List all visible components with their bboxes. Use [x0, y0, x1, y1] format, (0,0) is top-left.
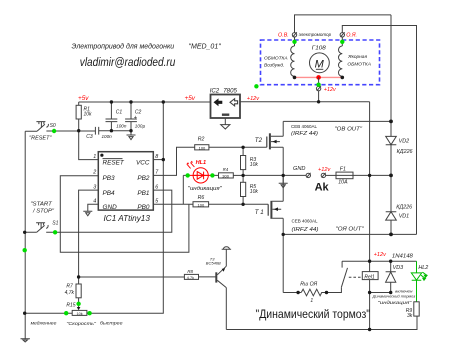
svg-text:R4: R4 — [223, 167, 229, 172]
svg-text:VCC: VCC — [136, 159, 150, 166]
svg-text:VD2: VD2 — [399, 139, 410, 145]
title text — [72, 43, 222, 51]
wire T1 source to GND row — [282, 175, 284, 201]
node 1N4148 label — [392, 254, 413, 260]
svg-text:HL2: HL2 — [418, 265, 428, 271]
ground (IC1 pin4) — [83, 211, 92, 216]
svg-text:О.В.: О.В. — [278, 32, 289, 38]
node +12v label (IC2 out) — [247, 96, 260, 102]
node "ОВ OUT" label — [335, 127, 364, 133]
svg-text:(IRFZ 44): (IRFZ 44) — [292, 227, 319, 233]
wire pin8 VCC lead — [153, 159, 163, 161]
node "ОЯ OUT" label — [336, 227, 365, 233]
power +12 stub symbol (above T3) — [222, 247, 231, 266]
wire T2 drain to OV rail — [282, 121, 284, 136]
node О.В. terminal — [278, 32, 297, 38]
LED HL2 (green) — [411, 261, 428, 302]
node "индикация" label — [188, 186, 223, 192]
svg-text:RESET: RESET — [103, 159, 125, 166]
inductor field winding — [264, 37, 295, 77]
svg-text:+: + — [134, 115, 138, 121]
IC op IC1 ATtiny13 — [92, 152, 159, 223]
svg-text:Ak: Ak — [315, 181, 330, 193]
svg-text:HL1: HL1 — [196, 160, 207, 166]
svg-text:(IRFZ 44): (IRFZ 44) — [291, 131, 318, 137]
svg-text:ОБМОТКА: ОБМОТКА — [347, 61, 371, 67]
relay contact — [327, 261, 362, 292]
wire pin3 PB4 vertical — [79, 190, 99, 277]
switch S1 — [25, 221, 59, 233]
svg-text:S1: S1 — [52, 221, 58, 227]
svg-text:Rш ОЯ: Rш ОЯ — [300, 281, 317, 287]
svg-text:F1: F1 — [340, 166, 346, 172]
svg-text:"ОВ OUT": "ОВ OUT" — [335, 127, 364, 133]
wire T2 source to GND row — [282, 147, 284, 175]
resistor R1 — [76, 102, 92, 131]
wire motor +12 stub — [318, 77, 320, 101]
svg-text:C3: C3 — [86, 134, 93, 140]
diode VD2 (KD226) — [386, 15, 413, 176]
node +12v terminal (battery) — [318, 167, 331, 178]
svg-text:8: 8 — [155, 154, 158, 160]
svg-text:КД226: КД226 — [397, 149, 413, 155]
svg-text:"индикация": "индикация" — [188, 186, 223, 192]
wire OYA OUT rail — [283, 233, 416, 235]
wire motor common (red) — [293, 75, 344, 80]
svg-text:R6: R6 — [198, 195, 205, 201]
transistor T2 (IRFZ44) — [255, 124, 318, 149]
diode VD1 (KD226) — [386, 175, 412, 234]
svg-text:100µ: 100µ — [135, 124, 146, 129]
ground (under C2) — [127, 131, 136, 140]
svg-text:Динамический тормоз: Динамический тормоз — [372, 293, 416, 298]
svg-text:IC2: IC2 — [210, 87, 220, 94]
svg-text:IC1 ATtiny13: IC1 ATtiny13 — [104, 214, 151, 223]
node Динамический тормоз label — [256, 307, 371, 321]
svg-text:PB3: PB3 — [103, 175, 116, 182]
svg-text:R8: R8 — [187, 269, 193, 274]
svg-text:PB1: PB1 — [137, 190, 150, 197]
wire T1 drain to OYA rail — [282, 218, 284, 234]
svg-text:1: 1 — [93, 154, 96, 160]
node +5v label left — [78, 95, 89, 102]
node электромотор label — [299, 32, 332, 37]
svg-text:R2: R2 — [198, 136, 205, 142]
svg-text:1N4148: 1N4148 — [392, 254, 413, 260]
wire T3 emitter to bottom rail — [225, 288, 227, 330]
svg-text:BC546B: BC546B — [206, 261, 221, 266]
wire RESET row — [46, 130, 131, 132]
svg-text:электромотор: электромотор — [299, 32, 332, 37]
LED HL1 — [183, 160, 218, 205]
svg-text:C2: C2 — [135, 109, 142, 115]
svg-text:CEB 4060AL: CEB 4060AL — [291, 124, 318, 129]
capacitor C2 (electrolytic) — [125, 102, 145, 131]
resistor R7 — [65, 277, 82, 304]
wire R6 to T1 gate — [209, 203, 269, 205]
wire OV OUT rail — [283, 120, 391, 122]
wire OV motor route — [295, 15, 392, 33]
node +12v label (relay) — [374, 252, 387, 258]
resistor R4 — [219, 167, 244, 178]
svg-text:2: 2 — [92, 170, 96, 176]
resistor R8 — [184, 269, 215, 280]
node Ak label — [315, 181, 330, 193]
node dynamic brake small labels — [372, 289, 416, 306]
svg-text:VD1: VD1 — [399, 213, 410, 219]
svg-text:GND: GND — [293, 166, 305, 172]
svg-text:T2: T2 — [255, 137, 263, 144]
svg-text:10A: 10A — [338, 180, 348, 186]
relay coil Rel1 — [362, 272, 390, 293]
node green test points — [23, 40, 345, 316]
node "START/STOP" label — [30, 202, 55, 215]
svg-text:Якорная: Якорная — [347, 54, 367, 60]
svg-text:+5v: +5v — [185, 95, 196, 102]
wire relay +12 rail — [342, 260, 416, 262]
wire F1 to diode column — [353, 174, 391, 176]
svg-text:+12v: +12v — [247, 96, 260, 102]
resistor R9 — [406, 302, 419, 319]
svg-text:GND: GND — [103, 204, 118, 211]
svg-text:/ STOP": / STOP" — [32, 208, 55, 214]
node +5v label right — [185, 95, 196, 102]
svg-text:быстрее: быстрее — [100, 321, 123, 326]
wire RESET to pin1 — [79, 131, 99, 160]
svg-text:6: 6 — [155, 184, 158, 190]
svg-text:10k: 10k — [84, 112, 93, 118]
svg-text:О.Я.: О.Я. — [346, 32, 357, 38]
wire +5v long vertical to pot — [90, 102, 164, 313]
svg-text:+12v: +12v — [318, 167, 331, 173]
svg-text:C1: C1 — [116, 109, 123, 115]
svg-text:3k: 3k — [407, 313, 413, 319]
svg-text:PB2: PB2 — [137, 175, 150, 182]
svg-text:vladimir@radioded.ru: vladimir@radioded.ru — [80, 57, 176, 69]
svg-text:T 1: T 1 — [255, 209, 264, 216]
svg-text:М: М — [315, 58, 325, 70]
svg-text:4,7k: 4,7k — [187, 276, 194, 280]
motor block dashed box — [261, 40, 380, 85]
resistor R5 — [241, 175, 259, 204]
svg-text:Электропривод для медогонки: Электропривод для медогонки — [72, 43, 175, 51]
email text — [80, 57, 176, 69]
svg-text:R15: R15 — [66, 302, 75, 308]
svg-text:"MED_01": "MED_01" — [189, 44, 222, 51]
svg-text:100: 100 — [199, 146, 206, 151]
node GND terminal — [293, 166, 311, 178]
wire R2 to T2 gate — [209, 146, 267, 148]
svg-text:"Динамический тормоз": "Динамический тормоз" — [256, 307, 371, 321]
diode VD3 (1N4148) — [386, 261, 404, 292]
svg-text:100n: 100n — [102, 134, 113, 139]
resistor Rsh (brake) — [283, 281, 341, 304]
capacitor C1 — [106, 102, 127, 131]
wire left rail — [24, 131, 26, 339]
svg-text:"RESET": "RESET" — [29, 135, 51, 141]
svg-text:PB4: PB4 — [103, 190, 116, 197]
svg-text:Возбужд.: Возбужд. — [264, 62, 284, 68]
resistor R3 — [241, 147, 259, 175]
transistor T1 (IRFZ44) — [255, 201, 319, 233]
wire brake to OYA rail — [282, 234, 284, 292]
inductor armature winding — [339, 37, 371, 77]
svg-text:100: 100 — [198, 202, 205, 207]
wire +12v from IC2 — [240, 101, 370, 103]
svg-text:R7: R7 — [66, 284, 73, 290]
motor M — [310, 45, 330, 72]
switch S0 — [25, 122, 56, 132]
svg-text:CEB 4060AL: CEB 4060AL — [292, 218, 319, 223]
capacitor C3 — [86, 127, 112, 140]
resistor R2 — [195, 136, 209, 150]
svg-text:PB0: PB0 — [137, 204, 150, 211]
wire +12 long vertical (to relay) — [369, 102, 371, 330]
ground (GND row) — [279, 175, 288, 187]
svg-text:"Скорость": "Скорость" — [66, 321, 96, 327]
fuse F1 — [326, 166, 353, 185]
svg-text:4: 4 — [93, 199, 96, 205]
wire OYA motor route — [342, 26, 416, 235]
svg-text:10k: 10k — [250, 189, 259, 195]
node +12v motor terminal — [316, 86, 336, 93]
svg-text:"индикация": "индикация" — [378, 300, 412, 305]
svg-text:+5v: +5v — [78, 95, 89, 102]
ground (bottom left) — [21, 339, 30, 342]
svg-text:10k: 10k — [77, 312, 83, 316]
svg-text:7805: 7805 — [223, 87, 237, 94]
svg-text:Rel1: Rel1 — [364, 274, 375, 280]
svg-text:КД226: КД226 — [396, 204, 412, 210]
svg-text:"ОЯ OUT": "ОЯ OUT" — [336, 227, 365, 233]
svg-text:"START: "START — [30, 202, 52, 208]
svg-text:300: 300 — [222, 174, 229, 179]
svg-text:+12v: +12v — [374, 252, 387, 258]
wire GND row — [243, 174, 306, 176]
wire pin4 GND lead — [88, 204, 99, 211]
svg-text:VD3: VD3 — [393, 265, 404, 271]
svg-text:10k: 10k — [250, 162, 259, 168]
transistor T3 (BC546B) — [206, 257, 227, 288]
svg-text:100n: 100n — [116, 124, 127, 129]
potentiometer R15 — [25, 302, 90, 315]
wire R7 row to R8 — [79, 276, 185, 278]
node speed labels — [31, 321, 123, 327]
svg-text:4,7k: 4,7k — [65, 290, 75, 296]
svg-text:3: 3 — [93, 184, 96, 190]
wire +5v rail — [79, 101, 211, 103]
svg-text:S0: S0 — [50, 123, 56, 129]
svg-text:медленнее: медленнее — [31, 321, 57, 326]
IC regulator IC2 7805 — [210, 87, 240, 129]
svg-text:+12v: +12v — [324, 87, 336, 93]
node О.Я. terminal — [340, 32, 357, 38]
wire pin5 PB0 row — [153, 203, 193, 205]
wire S1 to PB1 — [46, 190, 172, 232]
node "RESET" label — [29, 135, 51, 141]
wire pin7 PB2 to R2 — [153, 147, 194, 175]
resistor R6 — [193, 195, 209, 207]
svg-text:Г108: Г108 — [312, 45, 326, 51]
wire bottom rail — [226, 316, 417, 329]
wire pin2 PB3 route — [60, 176, 189, 253]
svg-text:ОБМОТКА: ОБМОТКА — [264, 56, 288, 62]
svg-text:1: 1 — [310, 298, 313, 304]
